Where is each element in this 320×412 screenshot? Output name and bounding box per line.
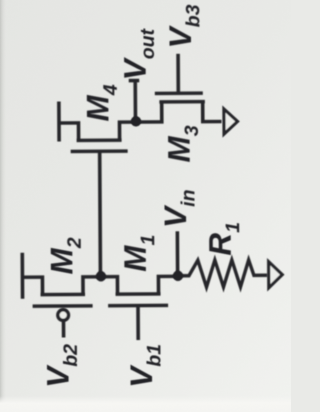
wire Vb3 lead to M3 gate xyxy=(176,54,180,93)
node A (junction dot, M1 drain / M2 drain / M4 gate) xyxy=(96,271,106,281)
wire M1 source to node Vin xyxy=(158,276,178,294)
power rail VDD (source of M4) xyxy=(57,102,61,142)
transistor M4 (channel bar + gate bar) xyxy=(71,140,128,151)
power rail VDD (source of M2) xyxy=(20,253,24,299)
wire Vb2 lead from M2 gate bubble xyxy=(62,321,66,337)
wire node Vout to M3 drain xyxy=(136,102,162,122)
wire M4 source to VDD rail xyxy=(59,123,79,141)
wire Vb1 lead from M1 gate xyxy=(136,306,140,340)
node Vout (junction dot) xyxy=(131,116,141,126)
wire M2 drain to node A xyxy=(83,277,101,295)
transistor M1 (channel bar + gate bar) xyxy=(108,294,168,306)
wire M4 drain to node Vout xyxy=(119,122,136,140)
resistor R1 xyxy=(178,260,267,288)
page left edge shadow xyxy=(0,0,6,412)
bottom white page margin xyxy=(0,396,291,412)
PMOS bubble on M2 gate xyxy=(58,310,69,321)
tick at end of Vout lead xyxy=(129,79,139,83)
ground (triangle at R1) xyxy=(269,262,283,288)
ground (triangle at M3 source) xyxy=(224,109,238,134)
wire M2 source to VDD rail xyxy=(22,277,42,295)
wire M4 gate to node A xyxy=(98,151,102,276)
transistor M3 (channel bar + gate bar) xyxy=(155,93,205,102)
wire node A to M1 drain xyxy=(101,277,118,295)
wire Vin lead from node xyxy=(176,231,180,276)
node Vin (junction dot) xyxy=(173,271,183,281)
wire M3 source to ground xyxy=(203,102,222,122)
transistor M2 (channel bar + gate bar, PMOS) xyxy=(33,294,93,306)
wire Vout lead from node xyxy=(133,80,137,122)
